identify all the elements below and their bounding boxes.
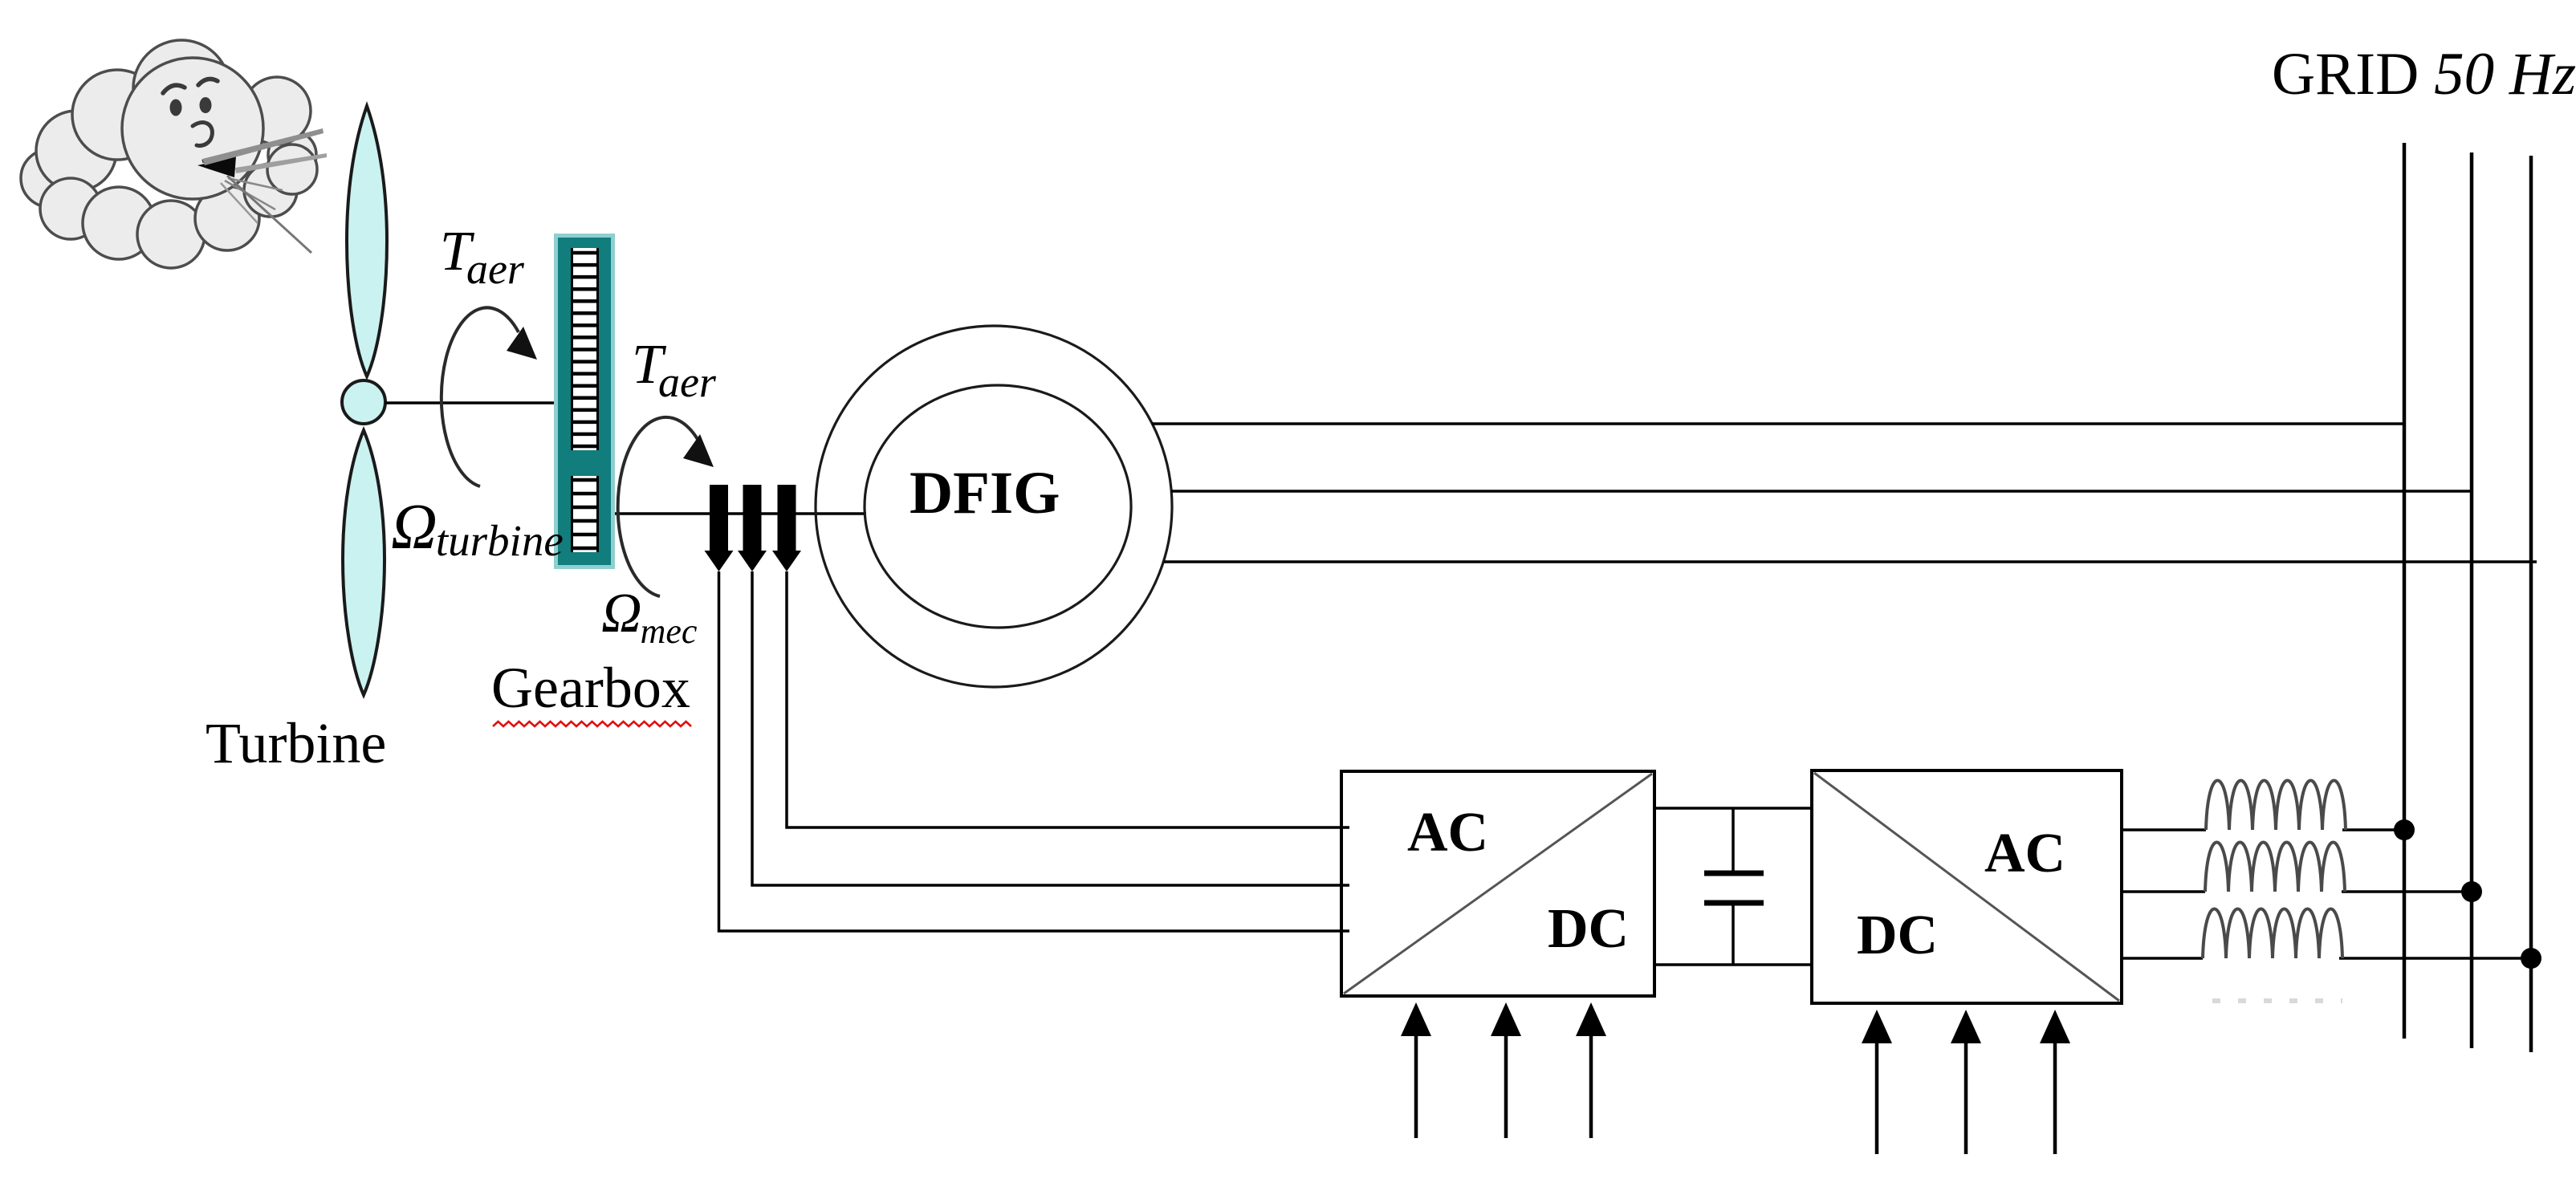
svg-text:GRID 50 Hz: GRID 50 Hz [2272, 41, 2576, 108]
svg-text:DFIG: DFIG [910, 460, 1060, 526]
svg-text:DC: DC [1857, 905, 1938, 966]
svg-text:Turbine: Turbine [206, 711, 386, 775]
svg-text:AC: AC [1407, 802, 1488, 864]
svg-text:Gearbox: Gearbox [491, 656, 690, 720]
svg-text:AC: AC [1984, 823, 2065, 884]
svg-text:DC: DC [1548, 898, 1629, 960]
